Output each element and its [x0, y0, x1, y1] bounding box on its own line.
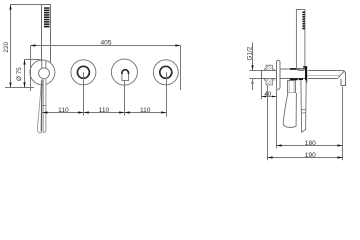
svg-text:220: 220	[3, 41, 10, 52]
holder bracket bottom tab	[303, 81, 305, 83]
knob circle C3 outer	[111, 59, 137, 85]
extension line from C2 center	[83, 72, 85, 115]
dimension 220 arrow up	[9, 4, 11, 9]
valve body behind wall	[262, 71, 277, 79]
hand shower wand (side)	[296, 10, 305, 69]
dimension 40 / 180 shared extension	[276, 89, 278, 148]
dimension 40 arrow left	[262, 96, 267, 98]
grip tick 1	[301, 108, 306, 110]
dimension 40 arrow right	[272, 96, 277, 98]
control lever right edge dark	[40, 80, 43, 132]
svg-text:180: 180	[305, 140, 316, 147]
svg-text:110: 110	[140, 107, 151, 114]
wand neck right line inside C1	[45, 61, 47, 69]
dimension 180 arrow left	[276, 144, 281, 146]
spout bottom edge	[308, 78, 337, 80]
dimension 190 line	[268, 157, 343, 159]
dimension D75 line	[24, 60, 26, 88]
knob circle C2 inner	[77, 66, 89, 78]
dimension 180 arrow right	[337, 144, 342, 146]
black band on sleeve bottom	[290, 78, 298, 80]
dimension 405 arrow right	[175, 44, 180, 46]
knob circle C2 outer	[71, 60, 96, 85]
dimension 190 arrow left	[267, 156, 272, 158]
top inlet nipple G1/2	[265, 65, 275, 70]
dimension 405 right extension line	[180, 46, 182, 91]
wand union curve	[296, 69, 304, 70]
dimension D75 top extension line	[25, 59, 41, 61]
dimension 40 line	[262, 96, 277, 98]
spout tube top	[308, 71, 345, 81]
hand shower grip (front)	[43, 79, 46, 133]
hand shower head (front)	[42, 5, 51, 63]
spout aerator	[341, 79, 346, 86]
G1/2 lower arrow up	[251, 79, 253, 84]
extension line from C3	[124, 80, 126, 115]
dimension 190 arrow right	[337, 156, 342, 158]
G1/2 leader arrow down	[251, 65, 253, 70]
hand shower spray face dashes	[44, 7, 50, 27]
holder bracket black bar	[305, 66, 307, 82]
svg-text:40: 40	[264, 91, 271, 98]
spout middle seam	[307, 75, 341, 77]
dimension 405 left extension line	[30, 46, 32, 92]
row arrow seg3 right	[161, 111, 166, 113]
G1/2 lower leader tail	[252, 79, 254, 90]
svg-text:190: 190	[305, 152, 316, 159]
lever neck inner lines	[288, 81, 290, 94]
wall trim plate	[277, 60, 281, 89]
svg-text:110: 110	[58, 107, 69, 114]
bottom inlet nipple G1/2	[265, 79, 275, 86]
dimension D75 arrow up	[23, 59, 25, 64]
row arrow seg2 right	[119, 111, 124, 113]
svg-text:405: 405	[100, 39, 111, 46]
row arrow seg1 right	[78, 111, 83, 113]
dimension row 110 line	[41, 112, 167, 114]
dimension 220/75 shared bottom extension line	[5, 87, 34, 89]
black band under bracket	[299, 78, 303, 80]
lever blade (side)	[283, 93, 296, 127]
dimension D75 arrow down	[23, 82, 25, 87]
spout chamfer	[338, 71, 345, 79]
knob circle C4 outer	[153, 60, 178, 85]
dimension 180/190 right extension	[342, 87, 344, 161]
body rear stub line top	[250, 70, 262, 72]
control lever blade (front)	[37, 80, 42, 134]
hand shower grip tick	[42, 105, 46, 107]
body rear stub line bottom	[250, 78, 262, 80]
dimension 220 arrow down	[9, 82, 11, 87]
dimension 40 left extension	[261, 79, 263, 100]
dimension 180 line	[277, 145, 343, 147]
diverter knob arch C3	[122, 70, 129, 81]
row arrow seg2 left	[84, 111, 89, 113]
lever neck (side)	[288, 81, 296, 94]
svg-text:Ø 75: Ø 75	[16, 67, 23, 81]
valve sleeve in front of wall	[280, 69, 306, 79]
hand shower grip (side)	[301, 80, 306, 132]
grip tick 2	[301, 112, 306, 114]
row arrow seg3 left	[125, 111, 130, 113]
holder bracket top tab	[303, 66, 305, 68]
wand neck left line inside C1	[41, 60, 43, 69]
knob circle C4 inner	[160, 66, 172, 78]
row arrow seg1 left	[42, 111, 47, 113]
dimension 190 left extension	[267, 86, 269, 160]
dimension 220 line	[10, 5, 12, 88]
wand spray dashes (side)	[302, 12, 305, 30]
extension line from C4 center	[166, 72, 168, 117]
hand shower holder ring	[39, 68, 50, 79]
G1/2 leader line	[252, 43, 254, 71]
svg-text:110: 110	[99, 107, 110, 114]
black band on sleeve top	[290, 68, 296, 70]
diverter knob arch thick top	[122, 70, 129, 74]
dimension 405 arrow left	[30, 44, 35, 46]
dimension 220 extension line top	[11, 4, 42, 6]
knob circle C1 outer	[30, 60, 55, 85]
dimension 405 line	[31, 45, 181, 47]
